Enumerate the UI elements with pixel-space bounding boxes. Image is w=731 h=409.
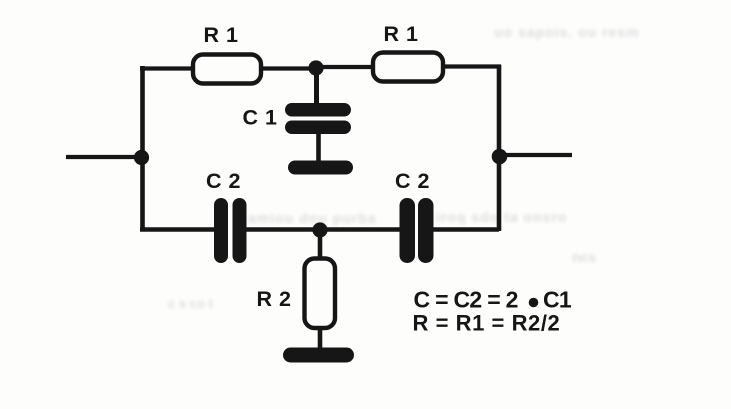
svg-text:C 1: C 1 (243, 106, 278, 130)
resistor R1 (right) body (373, 53, 443, 82)
svg-text:uo sapois. ou resm: uo sapois. ou resm (494, 24, 640, 40)
svg-text:c s co t: c s co t (168, 296, 213, 311)
capacitor C2 (left), left plate (214, 198, 228, 263)
ground bar below R2 (283, 348, 354, 363)
junction: top center node (308, 60, 323, 75)
wire: left vertical rail (140, 66, 145, 231)
wire: bottom rail, right segment (430, 227, 499, 231)
label R1 (left) (204, 23, 239, 47)
value label: formula R = R1 = R2/2 (413, 311, 561, 336)
capacitor C2 (right), right plate (418, 198, 434, 263)
label C2 (right) (395, 169, 430, 193)
wire: input lead (left) (66, 155, 141, 159)
junction: output node (492, 149, 508, 165)
svg-text:R 1: R 1 (384, 22, 419, 46)
label C2 (left) (206, 169, 241, 193)
wire: R2 top stem (318, 230, 323, 261)
value label: formula C = C2 = 2.C1 (414, 287, 572, 313)
svg-text:C 2: C 2 (395, 169, 430, 193)
wire: bottom rail, middle segment (243, 227, 403, 231)
svg-text:iroq sdo ta onsro: iroq sdo ta onsro (436, 209, 567, 225)
wire: bottom rail, left segment (140, 227, 219, 231)
svg-text:R 2: R 2 (257, 287, 292, 311)
wire: top rail, right segment with corner (441, 67, 499, 71)
capacitor C2 (right), left plate (400, 198, 416, 263)
svg-text:R 1: R 1 (204, 23, 239, 47)
svg-text:R = R1 = R2/2: R = R1 = R2/2 (413, 311, 561, 336)
svg-text:amiou dou purba: amiou dou purba (248, 210, 377, 226)
wire: top rail, left segment (140, 66, 196, 70)
junction: input node (134, 150, 149, 165)
svg-text:ncs: ncs (572, 249, 596, 265)
wire: R2 bottom stem (318, 327, 323, 350)
wire: output lead (right) (500, 153, 572, 157)
label R2 (257, 287, 292, 311)
ground bar below C1 (288, 161, 353, 175)
svg-text:C = C2 = 2: C = C2 = 2 (414, 287, 518, 313)
label C1 (243, 106, 278, 130)
wire: C1 top stem (314, 68, 319, 107)
resistor R1 (left) body (193, 55, 261, 84)
wire: top rail, center segment (259, 66, 318, 70)
capacitor C1 bottom plate (285, 121, 351, 135)
wire: top rail, right-center segment (316, 65, 376, 69)
svg-text:C 2: C 2 (206, 169, 241, 193)
junction: bottom center node (312, 222, 327, 237)
svg-text:C1: C1 (543, 287, 572, 313)
capacitor C2 (left), right plate (233, 198, 247, 263)
resistor R2 body (305, 259, 336, 329)
wire: C1 lower stem (316, 132, 321, 163)
wire: right vertical rail (497, 65, 502, 231)
label R1 (right) (384, 22, 419, 46)
capacitor C1 top plate (285, 103, 351, 117)
